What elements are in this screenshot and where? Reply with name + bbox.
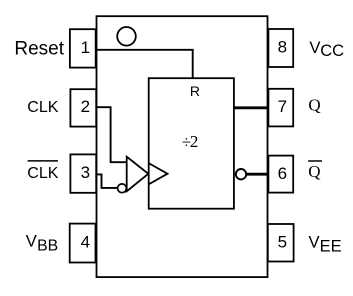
label CLKbar overline — [28, 160, 58, 162]
svg-text:4: 4 — [81, 233, 90, 252]
divider block U2 — [149, 78, 234, 209]
svg-text:R: R — [190, 83, 200, 99]
wire pin3 to bubble — [97, 174, 118, 188]
clock wedge on block — [149, 164, 167, 185]
svg-text:CLK: CLK — [27, 99, 58, 116]
wire bubble to pin6 — [246, 173, 268, 176]
svg-text:EE: EE — [320, 238, 342, 256]
pin 1 index circle — [117, 27, 136, 46]
pin 8 box — [268, 29, 293, 67]
wire block Q to pin7 — [234, 106, 269, 109]
pin 4 box — [70, 224, 96, 263]
pin 1 box — [70, 29, 96, 67]
pin 2 box — [70, 89, 96, 126]
svg-text:Q: Q — [308, 162, 320, 181]
svg-text:6: 6 — [278, 164, 287, 183]
svg-text:Reset: Reset — [14, 38, 64, 59]
svg-text:V: V — [309, 38, 320, 57]
svg-text:1: 1 — [81, 38, 90, 57]
IC body U1 — [97, 16, 268, 277]
svg-text:5: 5 — [278, 233, 287, 252]
svg-text:3: 3 — [81, 163, 90, 182]
svg-text:V: V — [309, 232, 320, 251]
svg-text:CLK: CLK — [27, 165, 58, 182]
svg-text:Q: Q — [308, 96, 320, 115]
label Qbar overline — [308, 160, 322, 162]
pin 6 box — [268, 156, 293, 193]
output inversion bubble — [236, 169, 246, 179]
wire pin1 to R — [97, 50, 193, 78]
svg-text:8: 8 — [278, 38, 287, 57]
pin 7 box — [268, 89, 293, 127]
pin 5 box — [268, 224, 294, 262]
buffer U3 triangle — [127, 157, 149, 192]
svg-text:V: V — [26, 231, 37, 250]
pin 3 box — [70, 154, 96, 192]
wire pin2 to buffer input — [97, 107, 127, 162]
svg-text:7: 7 — [278, 97, 287, 116]
svg-text:2: 2 — [81, 97, 90, 116]
svg-text:2: 2 — [190, 132, 199, 151]
input inversion bubble — [118, 184, 127, 193]
svg-text:CC: CC — [320, 42, 344, 60]
svg-text:BB: BB — [37, 238, 58, 255]
